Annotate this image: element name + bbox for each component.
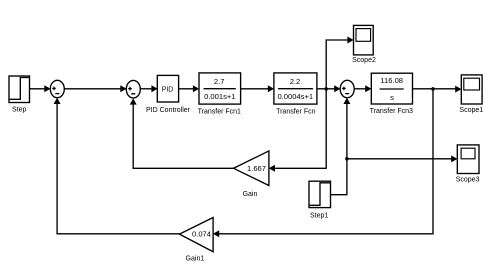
svg-text:0.001s+1: 0.001s+1 bbox=[204, 92, 235, 101]
svg-text:Step1: Step1 bbox=[310, 213, 328, 220]
svg-text:Scope3: Scope3 bbox=[456, 177, 480, 184]
svg-text:0.0004s+1: 0.0004s+1 bbox=[277, 92, 313, 101]
svg-text:PID: PID bbox=[162, 86, 174, 93]
svg-text:116.08: 116.08 bbox=[380, 76, 403, 85]
svg-text:2.2: 2.2 bbox=[290, 77, 301, 86]
svg-text:Transfer Fcn3: Transfer Fcn3 bbox=[370, 108, 413, 115]
svg-text:Gain1: Gain1 bbox=[186, 256, 205, 263]
svg-text:s: s bbox=[390, 93, 394, 102]
svg-text:1.667: 1.667 bbox=[247, 164, 266, 173]
svg-text:2.7: 2.7 bbox=[214, 77, 225, 86]
svg-text:Gain: Gain bbox=[243, 191, 258, 198]
svg-text:Step: Step bbox=[12, 107, 27, 114]
svg-text:Scope1: Scope1 bbox=[459, 107, 483, 114]
svg-text:0.074: 0.074 bbox=[192, 229, 211, 238]
svg-text:Transfer Fcn: Transfer Fcn bbox=[276, 108, 316, 115]
svg-text:Scope2: Scope2 bbox=[352, 57, 376, 64]
svg-text:PID Controller: PID Controller bbox=[146, 107, 191, 114]
svg-text:Transfer Fcn1: Transfer Fcn1 bbox=[198, 108, 241, 115]
